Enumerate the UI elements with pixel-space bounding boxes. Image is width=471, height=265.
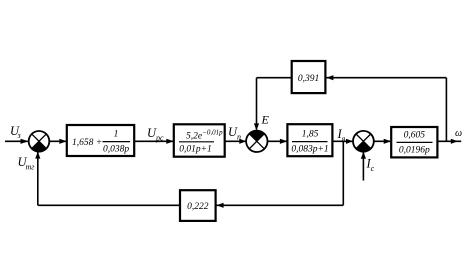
svg-text:0,222: 0,222: [187, 202, 209, 212]
wire bottom feedback horizontal left: [38, 204, 180, 206]
svg-text:1: 1: [114, 130, 119, 140]
block W3: 1,85 / (0,083p+1): [287, 124, 332, 156]
wire sum1 to block W1: [49, 140, 66, 142]
wire sum2 to block W3: [268, 140, 287, 142]
wire bottom feedback takeoff vertical: [342, 141, 344, 205]
arrowhead output w: [451, 139, 458, 144]
arrowhead into block W2: [166, 139, 174, 144]
wire block W2 to sum2: [225, 140, 246, 142]
arrowhead into sum2: [239, 139, 246, 144]
wire bottom feedback horizontal right: [216, 204, 343, 206]
svg-text:0,391: 0,391: [298, 74, 319, 84]
svg-text:1,658 +: 1,658 +: [72, 138, 102, 148]
svg-text:ω: ω: [455, 128, 462, 139]
arrowhead into block 0,391: [326, 75, 333, 80]
block W2: 5,2e^-0,01p / (0,01p+1): [174, 124, 225, 156]
wire block W1 to block W2: [134, 140, 173, 142]
summing junction sum1: [29, 131, 50, 152]
wire feedback vertical into sum1: [37, 151, 39, 205]
svg-text:E: E: [261, 113, 270, 127]
arrowhead Ic into sum3: [361, 152, 366, 159]
summing junction sum3: [353, 131, 374, 152]
svg-text:0,038p: 0,038p: [103, 145, 129, 155]
arrowhead into block W4: [384, 139, 392, 144]
arrowhead E into sum2: [254, 123, 259, 130]
block W1: 1,658 + 1/0,038p: [67, 125, 134, 156]
wire block 0,391 to E corner: [257, 77, 292, 79]
block feedback 0,222: [180, 190, 216, 221]
arrowhead into block 0,222: [216, 203, 223, 208]
block feedback 0,391: [292, 61, 326, 93]
wire output w: [437, 140, 461, 142]
svg-text:0,605: 0,605: [404, 131, 426, 141]
svg-text:1,85: 1,85: [302, 130, 319, 140]
svg-text:0,083p+1: 0,083p+1: [291, 145, 328, 155]
arrowhead into block W3: [280, 139, 288, 144]
wire feedback top vertical right: [445, 78, 447, 142]
svg-text:0,0196p: 0,0196p: [399, 146, 430, 156]
arrowhead into sum1: [21, 139, 29, 144]
wire input Uz: [5, 140, 28, 142]
wire E vertical into sum2: [256, 78, 258, 130]
arrowhead into block W1: [59, 139, 67, 144]
svg-text:0,01p+1: 0,01p+1: [179, 145, 212, 155]
arrowhead into sum3: [346, 139, 353, 144]
block W4: 0,605 / 0,0196p: [391, 127, 437, 157]
wire Ic stub into sum3: [362, 151, 364, 180]
summing junction sum2: [246, 131, 267, 152]
arrowhead feedback into sum1: [35, 152, 40, 159]
wire feedback top horizontal: [326, 77, 446, 79]
wire sum3 to block W4: [374, 140, 391, 142]
wire block W3 to sum3: [332, 140, 352, 142]
